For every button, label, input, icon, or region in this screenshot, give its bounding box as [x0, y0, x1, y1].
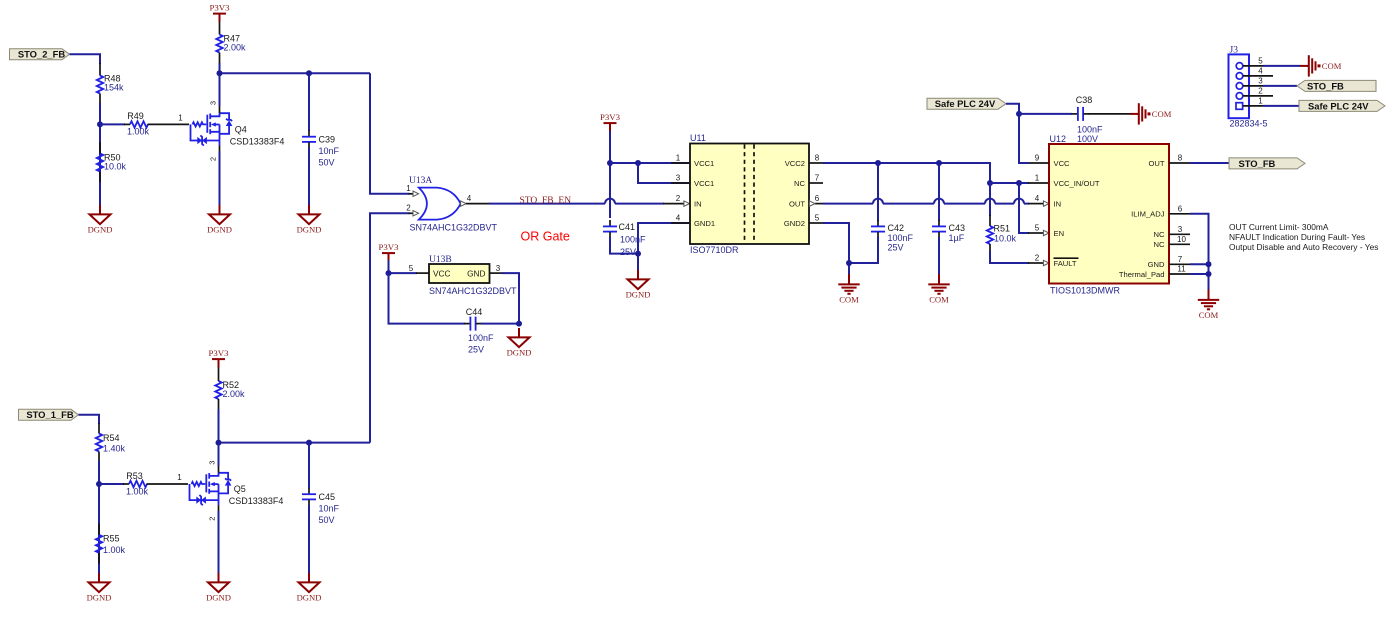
svg-text:4: 4	[1035, 194, 1040, 203]
svg-text:1: 1	[178, 113, 183, 122]
svg-text:Thermal_Pad: Thermal_Pad	[1119, 270, 1165, 279]
svg-text:C43: C43	[949, 223, 966, 233]
svg-text:5: 5	[409, 264, 414, 273]
svg-text:2.00k: 2.00k	[223, 389, 246, 399]
svg-text:3: 3	[1178, 225, 1183, 234]
svg-text:1: 1	[676, 154, 681, 163]
svg-text:STO_FB: STO_FB	[1239, 158, 1276, 169]
svg-text:C41: C41	[619, 222, 636, 232]
svg-text:ILIM_ADJ: ILIM_ADJ	[1131, 210, 1165, 219]
svg-text:U12: U12	[1050, 134, 1067, 144]
svg-text:1.00k: 1.00k	[103, 545, 126, 555]
svg-text:1: 1	[177, 473, 182, 482]
svg-text:Safe PLC 24V: Safe PLC 24V	[935, 98, 996, 109]
svg-text:VCC1: VCC1	[694, 159, 714, 168]
svg-text:10: 10	[1177, 235, 1186, 244]
svg-text:1.00k: 1.00k	[126, 486, 149, 496]
svg-text:Safe PLC 24V: Safe PLC 24V	[1308, 101, 1369, 112]
svg-text:1.40k: 1.40k	[103, 443, 126, 453]
svg-text:GND: GND	[1148, 260, 1165, 269]
svg-text:C38: C38	[1076, 95, 1093, 105]
svg-text:Output Disable and Auto Recove: Output Disable and Auto Recovery - Yes	[1229, 242, 1378, 252]
svg-text:EN: EN	[1054, 229, 1065, 238]
svg-text:6: 6	[1178, 204, 1183, 213]
svg-text:R54: R54	[103, 433, 120, 443]
svg-text:1: 1	[1258, 97, 1263, 106]
svg-text:100nF: 100nF	[888, 233, 914, 243]
svg-text:2: 2	[406, 204, 411, 213]
svg-text:3: 3	[208, 461, 217, 465]
svg-text:IN: IN	[694, 199, 702, 208]
svg-text:1: 1	[1035, 174, 1040, 183]
svg-text:GND: GND	[467, 268, 485, 278]
svg-text:7: 7	[815, 174, 820, 183]
svg-text:5: 5	[815, 214, 820, 223]
svg-text:R53: R53	[126, 471, 143, 481]
svg-text:IN: IN	[1054, 199, 1062, 208]
svg-text:NFAULT Indication During Fault: NFAULT Indication During Fault- Yes	[1229, 232, 1365, 242]
svg-text:STO_1_FB: STO_1_FB	[26, 409, 73, 420]
svg-text:3: 3	[1258, 77, 1263, 86]
svg-text:25V: 25V	[468, 345, 484, 355]
svg-text:GND2: GND2	[784, 219, 805, 228]
svg-text:U13B: U13B	[429, 255, 452, 265]
svg-text:TIOS1013DMWR: TIOS1013DMWR	[1050, 286, 1121, 296]
svg-text:J3: J3	[1230, 46, 1239, 56]
svg-text:5: 5	[1035, 224, 1040, 233]
svg-text:25V: 25V	[620, 247, 636, 257]
svg-text:6: 6	[815, 194, 820, 203]
svg-text:NC: NC	[1154, 240, 1165, 249]
svg-text:R55: R55	[103, 533, 120, 543]
svg-text:1: 1	[406, 184, 411, 193]
svg-text:154k: 154k	[104, 82, 124, 92]
svg-text:OUT: OUT	[1148, 159, 1164, 168]
svg-text:10nF: 10nF	[319, 504, 340, 514]
svg-text:CSD13383F4: CSD13383F4	[230, 137, 285, 147]
svg-text:CSD13383F4: CSD13383F4	[229, 496, 284, 506]
svg-text:100nF: 100nF	[620, 235, 646, 245]
svg-text:4: 4	[676, 214, 681, 223]
svg-text:5: 5	[1258, 57, 1263, 66]
svg-text:C45: C45	[319, 492, 336, 502]
svg-text:FAULT: FAULT	[1054, 259, 1077, 268]
svg-text:1.00k: 1.00k	[127, 127, 150, 137]
svg-text:25V: 25V	[888, 243, 904, 253]
svg-text:9: 9	[1035, 154, 1040, 163]
svg-text:8: 8	[815, 154, 820, 163]
svg-text:3: 3	[676, 174, 681, 183]
svg-text:C42: C42	[888, 223, 905, 233]
svg-text:GND1: GND1	[694, 219, 715, 228]
svg-text:STO_FB_EN: STO_FB_EN	[520, 196, 572, 206]
svg-text:2.00k: 2.00k	[224, 43, 247, 53]
svg-text:8: 8	[1178, 154, 1183, 163]
svg-text:SN74AHC1G32DBVT: SN74AHC1G32DBVT	[410, 223, 498, 233]
svg-text:C39: C39	[319, 135, 336, 145]
svg-text:100nF: 100nF	[1077, 124, 1103, 134]
svg-text:R51: R51	[994, 224, 1011, 234]
svg-text:U11: U11	[690, 133, 706, 143]
svg-text:C44: C44	[466, 307, 483, 317]
svg-text:OUT: OUT	[789, 199, 805, 208]
svg-text:2: 2	[1258, 87, 1263, 96]
svg-text:STO_FB: STO_FB	[1307, 80, 1344, 91]
svg-text:VCC2: VCC2	[785, 159, 805, 168]
svg-text:50V: 50V	[319, 515, 335, 525]
svg-text:10.0k: 10.0k	[994, 234, 1017, 244]
svg-text:R49: R49	[127, 111, 144, 121]
svg-text:2: 2	[209, 157, 218, 161]
svg-text:NC: NC	[794, 179, 805, 188]
svg-text:OR Gate: OR Gate	[521, 230, 570, 244]
svg-text:4: 4	[467, 194, 472, 203]
svg-text:NC: NC	[1154, 230, 1165, 239]
svg-text:100nF: 100nF	[468, 333, 494, 343]
svg-text:VCC_IN/OUT: VCC_IN/OUT	[1054, 179, 1100, 188]
svg-text:VCC1: VCC1	[694, 179, 714, 188]
svg-text:SN74AHC1G32DBVT: SN74AHC1G32DBVT	[429, 286, 517, 296]
svg-text:3: 3	[209, 101, 218, 105]
svg-text:Q4: Q4	[235, 125, 247, 135]
svg-text:Q5: Q5	[234, 484, 246, 494]
svg-text:U13A: U13A	[409, 176, 432, 186]
svg-text:100V: 100V	[1077, 134, 1098, 144]
svg-text:STO_2_FB: STO_2_FB	[18, 49, 65, 60]
svg-text:10.0k: 10.0k	[104, 162, 127, 172]
svg-text:2: 2	[208, 517, 217, 521]
svg-text:VCC: VCC	[1054, 159, 1071, 168]
svg-text:2: 2	[676, 194, 681, 203]
svg-text:10nF: 10nF	[319, 146, 340, 156]
svg-text:3: 3	[496, 264, 501, 273]
svg-text:2: 2	[1035, 254, 1040, 263]
svg-text:1µF: 1µF	[949, 233, 965, 243]
svg-text:11: 11	[1177, 265, 1186, 274]
svg-text:VCC: VCC	[433, 268, 451, 278]
svg-text:282834-5: 282834-5	[1230, 118, 1268, 128]
svg-text:OUT Current Limit- 300mA: OUT Current Limit- 300mA	[1229, 222, 1329, 232]
svg-text:7: 7	[1178, 255, 1183, 264]
svg-text:4: 4	[1258, 67, 1263, 76]
svg-text:ISO7710DR: ISO7710DR	[690, 245, 739, 255]
svg-text:50V: 50V	[319, 158, 335, 168]
